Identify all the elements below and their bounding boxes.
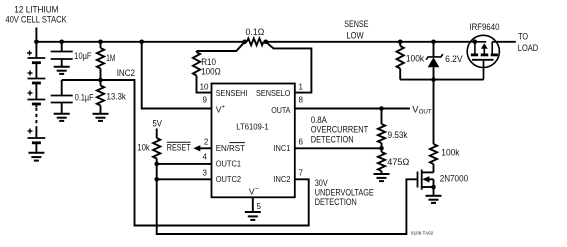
svg-text:6.2V: 6.2V [445, 53, 463, 64]
svg-text:9.53k: 9.53k [388, 129, 408, 140]
transistor Q1 2N7000 [418, 170, 434, 196]
op-amp U1 LT6109-1 box [212, 84, 295, 198]
svg-text:1M: 1M [106, 52, 115, 63]
svg-text:INC1: INC1 [274, 143, 291, 153]
wire top rail right [264, 41, 471, 43]
svg-text:9: 9 [203, 95, 208, 104]
svg-text:DETECTION: DETECTION [311, 133, 354, 144]
node sense left [242, 40, 247, 45]
resistor R4 10k [153, 138, 160, 159]
svg-text:10µF: 10µF [74, 50, 91, 61]
svg-text:8: 8 [299, 95, 304, 104]
ground U1 pin5 [245, 212, 261, 220]
node sense right [263, 40, 268, 45]
svg-text:DETECTION: DETECTION [315, 196, 357, 207]
svg-text:100k: 100k [441, 146, 459, 157]
resistor R7 100k gate pullup [397, 42, 404, 80]
svg-text:SENSELO: SENSELO [256, 88, 291, 98]
node zener bottom [431, 77, 436, 82]
ground R3 [93, 114, 109, 121]
svg-text:0.1Ω: 0.1Ω [246, 26, 265, 37]
wire sense-lo kelvin [266, 42, 312, 93]
node OUTC1 [154, 162, 159, 167]
svg-text:OUTC1: OUTC1 [216, 159, 242, 169]
svg-text:6109 TA02: 6109 TA02 [411, 231, 434, 237]
resistor R10 100ohm [193, 51, 212, 93]
svg-text:10k: 10k [137, 141, 150, 152]
wire pin6 INC1 [295, 147, 382, 149]
wire 5V pullup 10k [156, 129, 158, 139]
resistor RSENSE 0.1ohm [247, 38, 264, 45]
svg-text:475Ω: 475Ω [387, 156, 409, 167]
svg-text:IRF9640: IRF9640 [469, 21, 499, 32]
node mosfet source [473, 40, 478, 45]
svg-text:SENSE: SENSE [344, 18, 368, 29]
svg-text:100k: 100k [406, 53, 424, 64]
wire pin3 OUTC2 [157, 178, 212, 180]
capacitor C1 10uF [51, 42, 73, 67]
svg-text:OUTA: OUTA [271, 105, 290, 115]
node divider tap [98, 78, 103, 83]
svg-text:3: 3 [203, 168, 208, 177]
svg-text:10: 10 [200, 83, 209, 92]
wire to load [492, 41, 516, 43]
wire pin5 stub [252, 197, 254, 211]
node 100k top [398, 40, 403, 45]
wire pin4 OUTC1 [157, 163, 212, 165]
diode D1 zener 6.2V [426, 42, 443, 80]
svg-text:2: 2 [204, 137, 209, 146]
ground C1 [54, 67, 70, 74]
wire 10k bottom to gate net [157, 159, 417, 235]
svg-text:INC2: INC2 [117, 67, 135, 78]
node Q1 source [431, 185, 436, 190]
svg-text:SENSEHI: SENSEHI [216, 88, 248, 98]
chip U1 labels [216, 88, 291, 196]
node 1M top [98, 40, 103, 45]
svg-text:LOW: LOW [346, 29, 363, 40]
svg-text:OUTC2: OUTC2 [216, 174, 242, 184]
wire sense-hi kelvin [197, 42, 245, 51]
wire pin2 EN/RST [200, 147, 212, 149]
node INC1 tap [379, 146, 384, 151]
resistor R2 1M [97, 42, 104, 80]
node zener top [431, 40, 436, 45]
svg-text:LOAD: LOAD [518, 42, 538, 53]
svg-text:TO: TO [518, 31, 528, 42]
svg-text:+: + [222, 105, 226, 111]
svg-text:4: 4 [203, 153, 208, 162]
svg-text:13.3k: 13.3k [107, 91, 127, 102]
svg-text:2N7000: 2N7000 [440, 173, 468, 184]
svg-text:INC2: INC2 [274, 174, 291, 184]
wire C2 top [61, 80, 63, 96]
svg-text:0.1µF: 0.1µF [75, 92, 94, 103]
svg-text:40V CELL STACK: 40V CELL STACK [5, 14, 67, 25]
wire node INC2 divider tap [62, 80, 309, 226]
node VOUT tap [379, 106, 384, 111]
node dots [34, 40, 477, 190]
svg-text:5: 5 [257, 202, 262, 211]
transistor M1 IRF9640 [467, 35, 499, 79]
ground battery [28, 153, 44, 161]
ground C2 [54, 114, 70, 121]
resistor R5 9.53k [378, 109, 385, 153]
svg-text:EN/RST: EN/RST [216, 143, 245, 153]
resistor R6 475ohm [378, 152, 385, 173]
svg-text:5V: 5V [152, 118, 162, 129]
wire zener to 100k lower [433, 80, 435, 144]
svg-text:RESET: RESET [167, 141, 191, 152]
wire V+ branch [142, 42, 212, 109]
battery B1 40V cell stack [27, 28, 45, 152]
svg-text:1: 1 [299, 83, 304, 92]
resistor R3 13.3k [97, 80, 104, 113]
pin2 arrowhead [193, 145, 200, 151]
wire top rail left [36, 41, 247, 43]
svg-text:−: − [255, 185, 259, 192]
svg-text:100Ω: 100Ω [201, 66, 221, 77]
ground R6 [374, 174, 390, 181]
pin numbers [200, 83, 304, 211]
resistor R8 100k lower [430, 144, 437, 164]
svg-text:7: 7 [299, 168, 304, 177]
wire pin8 OUTA to VOUT [295, 108, 410, 110]
node V+ tap [139, 40, 144, 45]
svg-text:LT6109-1: LT6109-1 [236, 122, 269, 132]
node battery top [34, 40, 39, 45]
node C1 top [59, 40, 64, 45]
node OUTC2 [154, 177, 159, 182]
ground Q1 [426, 196, 442, 203]
capacitor C2 0.1uF [51, 96, 73, 114]
svg-text:6: 6 [299, 137, 304, 146]
wire gate rail [400, 79, 483, 81]
